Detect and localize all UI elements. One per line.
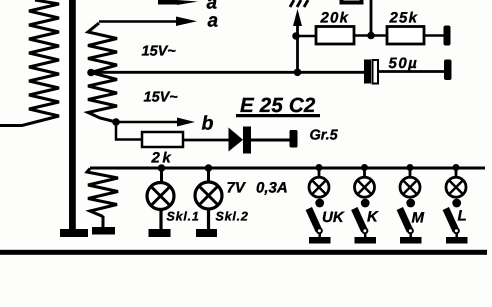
wire switch UK to ground [318, 233, 321, 238]
wire up from node (cut at top) [370, 0, 373, 36]
node between resistors [367, 32, 375, 40]
svg-text:Skl.2: Skl.2 [216, 210, 249, 224]
resistor 20k [316, 27, 354, 45]
wire capacitor to terminal [378, 70, 444, 73]
wire diode to terminal [251, 139, 291, 142]
wire arrow to terminal a [99, 20, 184, 23]
ground (UK) [309, 237, 331, 244]
ground (Skl.1) [149, 229, 171, 237]
wire to lamp Skl.2 [207, 168, 210, 182]
lamp Skl.1 [147, 183, 174, 210]
capacitor 50u plate + [364, 60, 371, 84]
ground (M) [400, 237, 422, 244]
terminal after diode [290, 130, 298, 148]
node lamp K [361, 164, 368, 171]
wire 25k to terminal [424, 34, 444, 37]
wire to 20k [296, 35, 316, 38]
node lamp L [453, 164, 460, 171]
svg-text:25k: 25k [389, 9, 419, 26]
wire switch M to ground [409, 233, 412, 238]
transformer core (grounded) [69, 0, 76, 229]
svg-text:M: M [412, 210, 425, 227]
node lamp UK [316, 164, 323, 171]
resistor 2k [142, 132, 183, 147]
svg-text:Gr.5: Gr.5 [310, 128, 339, 144]
lamp Skl.2 [195, 182, 222, 209]
wire lamp bus [90, 167, 485, 170]
lamp UK [309, 177, 329, 197]
ground (Skl.2) [196, 229, 217, 237]
switch K contact [361, 199, 370, 208]
diode E25C2 anode triangle [229, 128, 244, 152]
diode cathode bar [243, 127, 251, 154]
node m-branch [292, 32, 300, 40]
switch K lever [354, 209, 364, 231]
svg-text:0,3A: 0,3A [256, 180, 288, 197]
terminal after capacitor [444, 60, 452, 81]
lamp L [446, 177, 466, 197]
wire to lamp Skl.1 [160, 168, 163, 182]
svg-text:50µ: 50µ [389, 55, 419, 72]
wire to lamp L [455, 168, 458, 178]
wire switch L to ground [455, 233, 458, 238]
node lamp M [407, 164, 414, 171]
node b tap [112, 118, 120, 126]
svg-text:15V~: 15V~ [144, 90, 179, 106]
wire arrow to terminal m (cut label) [296, 24, 299, 72]
wire switch K to ground [364, 233, 367, 238]
transformer primary winding [0, 0, 59, 126]
switch L lever [446, 209, 456, 231]
component box cut at top edge [342, 0, 362, 3]
wire lamp Skl.1 to ground [159, 210, 162, 230]
switch UK lever [309, 209, 319, 231]
node lamp Skl.2 [205, 164, 213, 172]
svg-text:7V: 7V [227, 180, 247, 197]
svg-text:20k: 20k [320, 9, 350, 26]
svg-text:K: K [367, 209, 379, 226]
svg-text:b: b [202, 113, 214, 135]
switch UK contact [315, 199, 324, 208]
node lamp Skl.1 [158, 164, 166, 172]
svg-text:UK: UK [322, 209, 345, 226]
svg-text:15V~: 15V~ [142, 44, 177, 60]
capacitor 50u plate - [373, 60, 379, 84]
ground (K) [355, 237, 377, 244]
wire terminal a (cut at top edge) [158, 0, 178, 5]
svg-text:E 25 C2: E 25 C2 [240, 94, 316, 117]
switch M lever [400, 209, 410, 231]
transformer secondary winding lower 15V half [88, 73, 117, 123]
switch L contact [452, 199, 461, 208]
wire to lamp M [409, 168, 412, 178]
wire to lamp UK [318, 168, 321, 178]
wire b node down to 2k [116, 122, 142, 140]
node on 15V line [294, 69, 302, 77]
transformer secondary winding upper 15V half [88, 23, 117, 73]
wire 2k to diode [183, 139, 229, 142]
wire 20k to 25k [354, 34, 387, 37]
switch M contact [406, 199, 415, 208]
frame border bottom [0, 250, 487, 255]
wire lamp Skl.2 to ground [207, 209, 210, 229]
lamp K [355, 177, 375, 197]
ground (core) [60, 229, 88, 237]
wire to lamp K [363, 168, 366, 178]
transformer tertiary winding [87, 169, 118, 217]
wire arrow to terminal b [116, 121, 182, 124]
svg-text:a: a [208, 11, 219, 32]
node center tap [87, 69, 95, 77]
svg-text:Skl.1: Skl.1 [167, 210, 200, 224]
svg-text:L: L [458, 208, 467, 225]
resistor 25k [387, 27, 424, 45]
ground (L) [446, 237, 468, 244]
terminal after 25k [444, 26, 451, 46]
wire center tap 15V line [91, 71, 365, 74]
ground (tertiary winding) [92, 227, 115, 235]
svg-text:2k: 2k [151, 150, 174, 167]
wire tertiary to ground [102, 216, 105, 227]
lamp M [400, 177, 420, 197]
